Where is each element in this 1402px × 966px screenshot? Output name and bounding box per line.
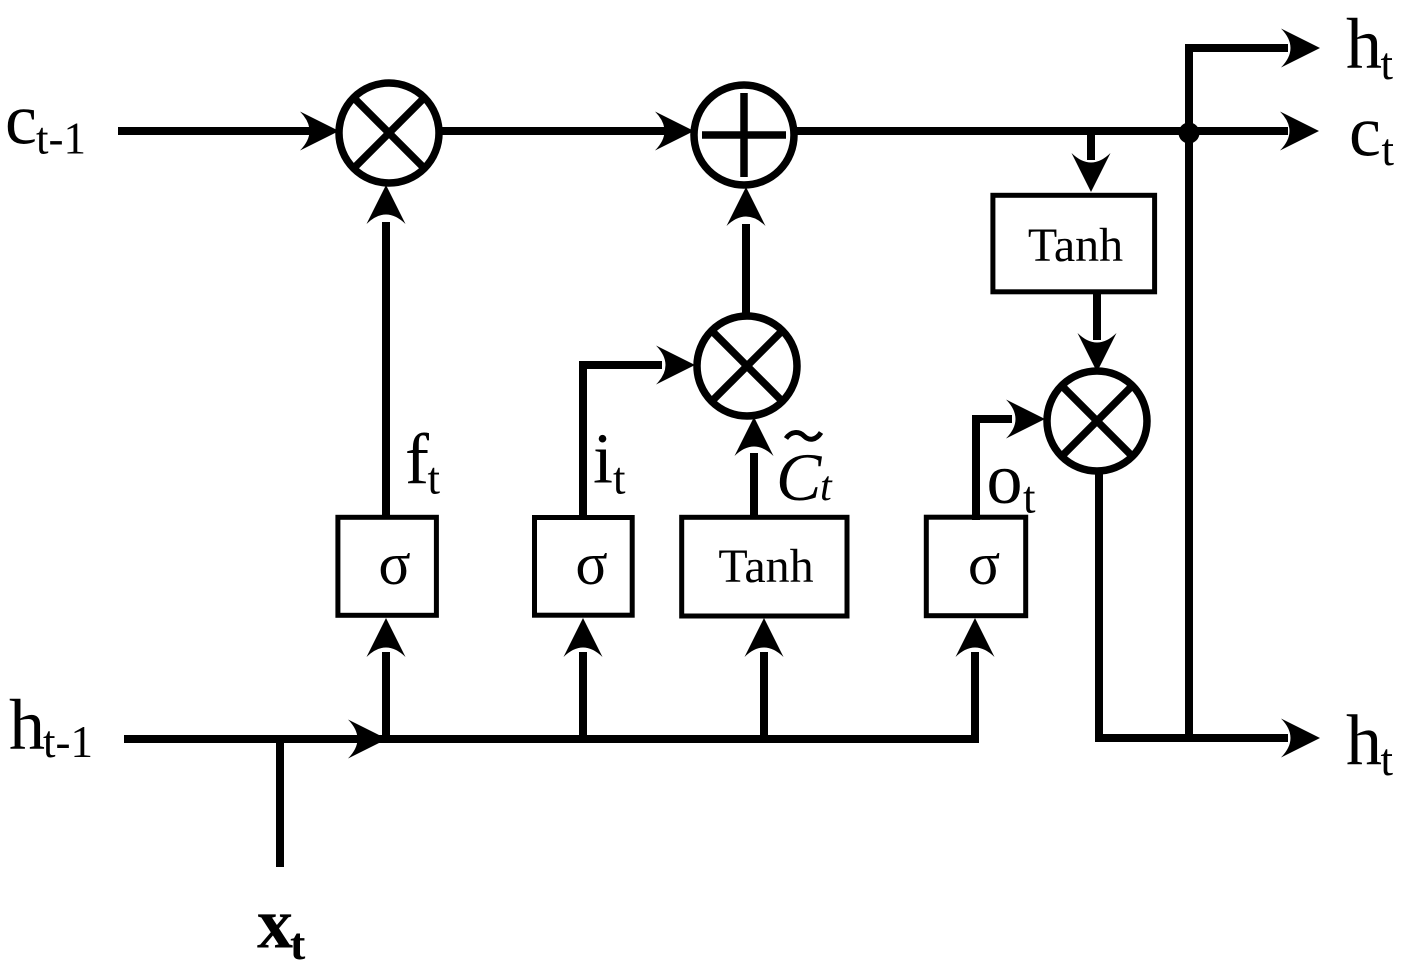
svg-text:t: t: [820, 464, 833, 510]
svg-text:t: t: [428, 454, 441, 504]
svg-text:t: t: [1023, 473, 1036, 523]
svg-text:C: C: [776, 439, 822, 515]
svg-text:h: h: [1346, 4, 1382, 84]
svg-text:Tanh: Tanh: [1028, 219, 1123, 272]
svg-text:c: c: [5, 80, 37, 160]
svg-text:i: i: [593, 419, 613, 499]
svg-text:σ: σ: [378, 531, 410, 597]
svg-text:t: t: [613, 454, 626, 504]
svg-text:Tanh: Tanh: [718, 540, 813, 593]
svg-text:σ: σ: [575, 531, 607, 597]
svg-text:t: t: [290, 918, 306, 966]
svg-text:h: h: [1346, 701, 1382, 781]
svg-text:x: x: [257, 884, 293, 964]
svg-text:t: t: [1381, 735, 1394, 785]
svg-text:h: h: [9, 685, 45, 765]
svg-text:σ: σ: [968, 531, 1000, 597]
svg-text:t: t: [1382, 125, 1395, 175]
svg-text:f: f: [405, 419, 429, 499]
svg-text:o: o: [987, 439, 1023, 519]
svg-text:t-1: t-1: [36, 114, 86, 164]
svg-text:t: t: [1381, 39, 1394, 89]
svg-text:c: c: [1349, 92, 1381, 172]
svg-text:t-1: t-1: [43, 717, 93, 767]
